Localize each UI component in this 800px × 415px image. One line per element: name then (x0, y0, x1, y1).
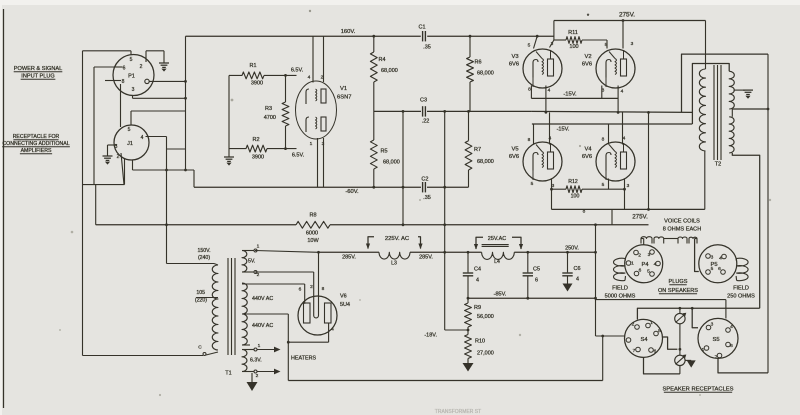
svg-text:S5: S5 (712, 337, 719, 343)
svg-text:160V.: 160V. (341, 29, 356, 35)
svg-text:10W: 10W (307, 238, 319, 244)
svg-text:68,000: 68,000 (477, 71, 494, 77)
svg-text:5: 5 (711, 266, 714, 272)
svg-text:R8: R8 (309, 213, 316, 219)
svg-text:V1: V1 (340, 86, 347, 92)
svg-text:-60V.: -60V. (345, 189, 359, 195)
svg-text:3: 3 (551, 41, 554, 47)
svg-text:V2: V2 (584, 54, 591, 60)
svg-text:3: 3 (115, 144, 118, 150)
svg-text:P4: P4 (641, 262, 649, 268)
svg-text:SPEAKER RECEPTACLES: SPEAKER RECEPTACLES (662, 387, 733, 393)
svg-text:6V6: 6V6 (582, 154, 592, 160)
svg-text:PLUGS: PLUGS (669, 279, 688, 285)
svg-text:100: 100 (571, 194, 580, 200)
svg-text:HEATERS: HEATERS (291, 356, 316, 362)
svg-text:V4: V4 (584, 147, 592, 153)
svg-text:5: 5 (605, 42, 608, 48)
svg-text:L4: L4 (494, 259, 500, 265)
svg-text:5: 5 (531, 181, 534, 187)
svg-text:250 OHMS: 250 OHMS (727, 294, 755, 300)
svg-text:-15V.: -15V. (563, 92, 577, 98)
svg-text:8 OHMS EACH: 8 OHMS EACH (663, 227, 702, 233)
svg-text:6V6: 6V6 (509, 154, 519, 160)
svg-text:C6: C6 (574, 266, 581, 272)
svg-text:225V. AC: 225V. AC (385, 236, 410, 242)
svg-text:FIELD: FIELD (733, 286, 749, 292)
svg-text:J1: J1 (127, 141, 133, 147)
svg-text:R11: R11 (568, 30, 578, 36)
svg-text:-15V.: -15V. (557, 127, 570, 133)
svg-text:C2: C2 (421, 176, 428, 182)
svg-text:3: 3 (631, 41, 634, 47)
svg-text:(220): (220) (195, 298, 207, 304)
svg-text:1: 1 (631, 261, 634, 267)
svg-text:R5: R5 (381, 149, 388, 155)
svg-text:C4: C4 (474, 267, 481, 273)
svg-text:6.5V.: 6.5V. (292, 153, 305, 159)
svg-text:5: 5 (130, 57, 133, 63)
svg-text:V6: V6 (340, 294, 347, 300)
svg-text:6SN7: 6SN7 (337, 95, 352, 101)
svg-text:ON SPEAKERS: ON SPEAKERS (658, 288, 698, 294)
svg-text:C: C (198, 345, 202, 351)
svg-text:285V.: 285V. (342, 255, 356, 261)
svg-text:6V6: 6V6 (509, 62, 519, 68)
svg-text:6: 6 (654, 349, 657, 355)
svg-text:5: 5 (528, 43, 531, 49)
svg-text:5V.: 5V. (248, 259, 255, 265)
svg-text:R9: R9 (474, 305, 481, 311)
svg-text:2: 2 (140, 64, 143, 70)
svg-text:2: 2 (117, 154, 120, 160)
svg-text:FIELD: FIELD (612, 286, 628, 292)
svg-text:R3: R3 (265, 106, 272, 112)
svg-text:(240): (240) (198, 255, 210, 261)
svg-text:8: 8 (322, 286, 325, 292)
svg-text:4: 4 (623, 136, 626, 142)
svg-text:8: 8 (528, 137, 531, 143)
svg-text:3: 3 (132, 87, 135, 93)
svg-text:R4: R4 (379, 57, 386, 63)
svg-text:56,000: 56,000 (477, 314, 494, 320)
svg-text:RECEPTACLE FOR: RECEPTACLE FOR (13, 134, 60, 140)
svg-text:6V6: 6V6 (582, 62, 592, 68)
svg-text:27,000: 27,000 (477, 351, 494, 357)
svg-text:8: 8 (528, 87, 531, 93)
svg-text:TRANSFORMER ST: TRANSFORMER ST (435, 409, 481, 415)
svg-text:4: 4 (331, 327, 334, 333)
svg-text:6.3V.: 6.3V. (250, 358, 262, 364)
svg-text:4: 4 (308, 75, 311, 81)
svg-text:250V.: 250V. (565, 245, 579, 251)
svg-text:275V.: 275V. (632, 214, 648, 221)
svg-text:V5: V5 (511, 147, 518, 153)
svg-text:.35: .35 (423, 195, 431, 201)
svg-text:3: 3 (711, 255, 714, 261)
svg-text:2: 2 (310, 284, 313, 290)
svg-text:R2: R2 (252, 137, 259, 143)
svg-text:5: 5 (647, 269, 650, 275)
svg-text:4: 4 (719, 256, 722, 262)
svg-text:VOICE COILS: VOICE COILS (664, 219, 700, 225)
svg-text:3: 3 (648, 252, 651, 258)
svg-text:2: 2 (632, 322, 635, 328)
svg-text:3: 3 (627, 183, 630, 189)
svg-text:T2: T2 (715, 162, 721, 168)
svg-text:R6: R6 (475, 60, 482, 66)
svg-text:R12: R12 (568, 179, 578, 185)
svg-text:-85V.: -85V. (494, 292, 507, 298)
svg-text:3900: 3900 (252, 155, 264, 161)
svg-text:4: 4 (141, 135, 144, 141)
svg-text:AMPLIFIERS: AMPLIFIERS (21, 148, 52, 154)
svg-text:5: 5 (602, 182, 605, 188)
svg-text:285V.: 285V. (419, 255, 433, 261)
svg-text:4: 4 (576, 277, 579, 283)
svg-text:6000: 6000 (306, 231, 318, 237)
svg-text:6.5V.: 6.5V. (291, 68, 304, 74)
svg-text:C1: C1 (418, 25, 425, 31)
svg-text:68,000: 68,000 (477, 159, 494, 165)
svg-text:440V AC: 440V AC (252, 323, 273, 329)
svg-text:4: 4 (476, 278, 479, 284)
svg-text:4: 4 (621, 89, 624, 95)
svg-text:2: 2 (257, 272, 260, 278)
svg-text:CONNECTING ADDITIONAL: CONNECTING ADDITIONAL (2, 141, 69, 147)
svg-text:4: 4 (654, 262, 657, 268)
svg-text:R10: R10 (475, 339, 485, 345)
svg-text:100: 100 (569, 44, 578, 50)
svg-text:.22: .22 (422, 119, 430, 125)
svg-text:7: 7 (633, 348, 636, 354)
svg-text:5U4: 5U4 (340, 302, 350, 308)
svg-text:C3: C3 (420, 98, 427, 104)
svg-text:8: 8 (122, 79, 125, 85)
svg-text:L3: L3 (391, 261, 397, 267)
svg-text:6: 6 (639, 268, 642, 274)
svg-text:R7: R7 (474, 147, 481, 153)
svg-text:150V.: 150V. (197, 248, 210, 254)
svg-text:4: 4 (548, 88, 551, 94)
svg-text:68,000: 68,000 (383, 160, 400, 166)
svg-text:P1: P1 (128, 74, 135, 80)
svg-text:275V.: 275V. (619, 12, 635, 19)
svg-text:INPUT PLUG: INPUT PLUG (21, 74, 54, 80)
svg-text:105: 105 (196, 290, 205, 296)
svg-text:1: 1 (257, 244, 260, 250)
svg-text:68,000: 68,000 (381, 68, 398, 74)
svg-text:1: 1 (310, 141, 313, 147)
svg-text:V3: V3 (511, 54, 518, 60)
svg-text:T1: T1 (225, 371, 231, 377)
svg-text:8: 8 (602, 137, 605, 143)
svg-text:1: 1 (258, 343, 261, 349)
svg-text:25V.AC: 25V.AC (488, 236, 506, 242)
svg-text:6: 6 (718, 266, 721, 272)
svg-text:-18V.: -18V. (424, 333, 437, 339)
svg-text:2: 2 (256, 373, 259, 379)
svg-text:8: 8 (583, 209, 586, 215)
svg-text:440V AC: 440V AC (252, 296, 273, 302)
svg-text:R1: R1 (249, 63, 256, 69)
svg-text:5000 OHMS: 5000 OHMS (605, 294, 636, 300)
svg-text:3900: 3900 (251, 81, 263, 87)
svg-text:5: 5 (128, 127, 131, 133)
svg-text:2: 2 (638, 253, 641, 259)
svg-text:4700: 4700 (264, 115, 276, 121)
svg-text:.35: .35 (423, 45, 431, 51)
svg-text:6: 6 (123, 66, 126, 72)
svg-text:S4: S4 (640, 337, 648, 343)
svg-text:C5: C5 (533, 267, 540, 273)
svg-text:6: 6 (535, 278, 538, 284)
svg-text:2: 2 (321, 75, 324, 81)
svg-text:POWER & SIGNAL: POWER & SIGNAL (14, 66, 63, 72)
svg-text:6: 6 (299, 287, 302, 293)
